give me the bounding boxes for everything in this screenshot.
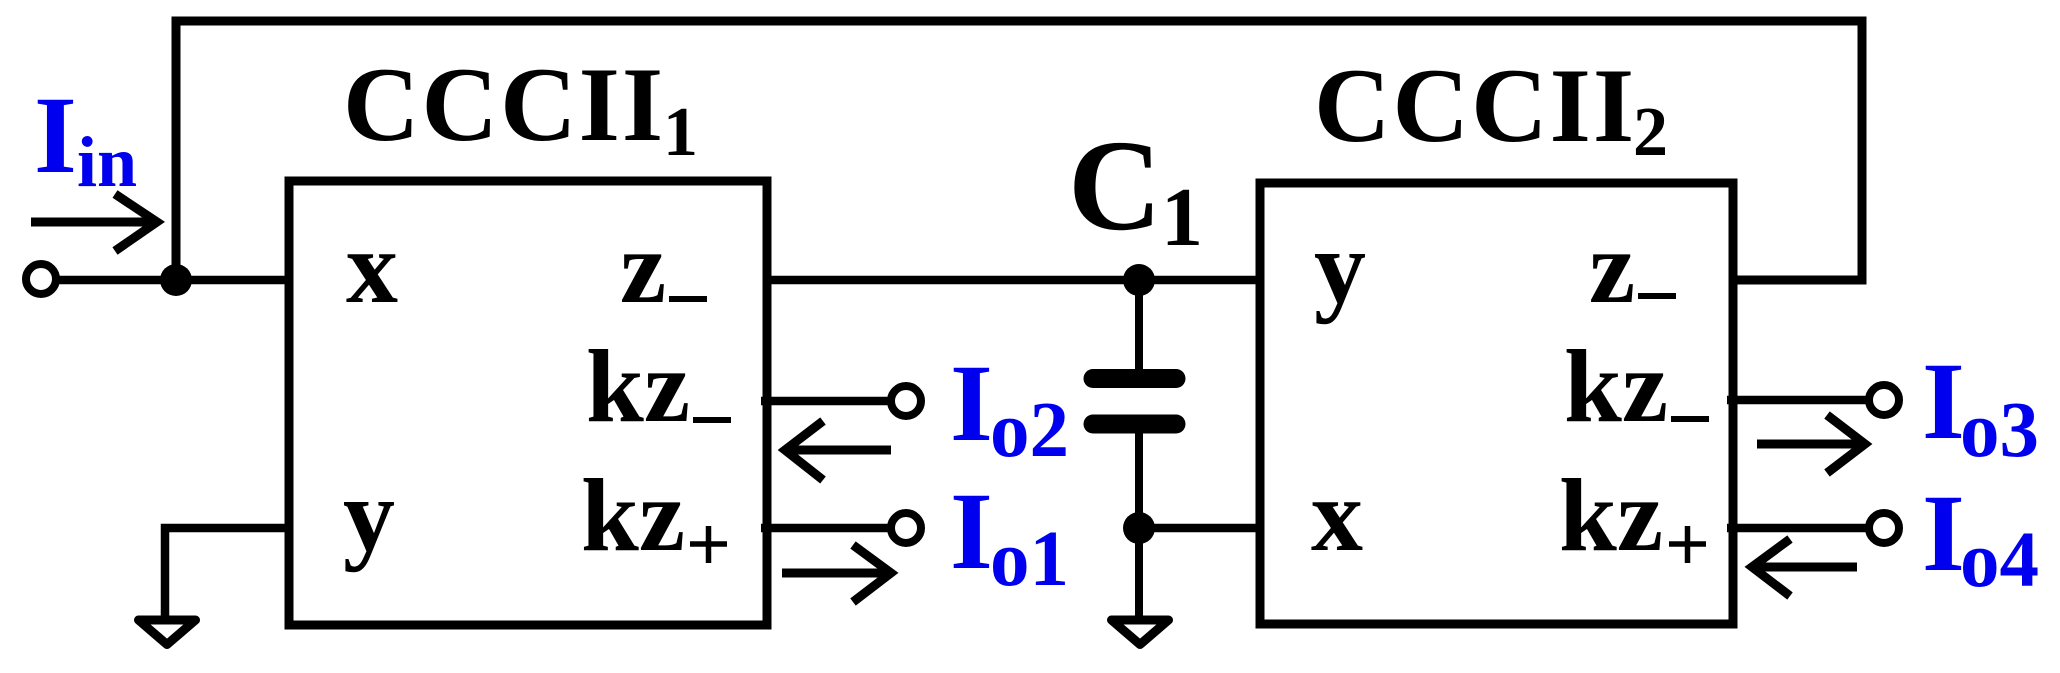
svg-text:kz: kz xyxy=(1559,458,1663,573)
svg-text:1: 1 xyxy=(663,94,698,171)
svg-text:C: C xyxy=(1068,114,1162,258)
svg-text:I: I xyxy=(950,342,993,464)
svg-text:kz: kz xyxy=(581,458,685,573)
svg-text:I: I xyxy=(950,470,993,592)
svg-text:o3: o3 xyxy=(1960,387,2039,474)
svg-text:o1: o1 xyxy=(990,516,1069,603)
svg-text:I: I xyxy=(1922,340,1965,462)
svg-text:in: in xyxy=(77,122,137,202)
svg-text:y: y xyxy=(343,458,395,573)
svg-text:y: y xyxy=(1314,210,1366,325)
svg-text:I: I xyxy=(1922,472,1965,594)
svg-text:CCCII: CCCII xyxy=(343,46,665,163)
svg-text:z: z xyxy=(1589,210,1635,325)
svg-text:z: z xyxy=(620,210,666,325)
svg-text:I: I xyxy=(34,74,77,196)
svg-text:1: 1 xyxy=(1161,171,1203,264)
svg-text:2: 2 xyxy=(1633,94,1668,171)
svg-text:kz: kz xyxy=(586,329,690,444)
svg-text:x: x xyxy=(1311,458,1363,573)
svg-text:CCCII: CCCII xyxy=(1314,47,1636,164)
svg-text:x: x xyxy=(346,210,398,325)
svg-text:o2: o2 xyxy=(990,387,1069,474)
svg-text:o4: o4 xyxy=(1960,517,2039,604)
svg-text:kz: kz xyxy=(1564,329,1668,444)
